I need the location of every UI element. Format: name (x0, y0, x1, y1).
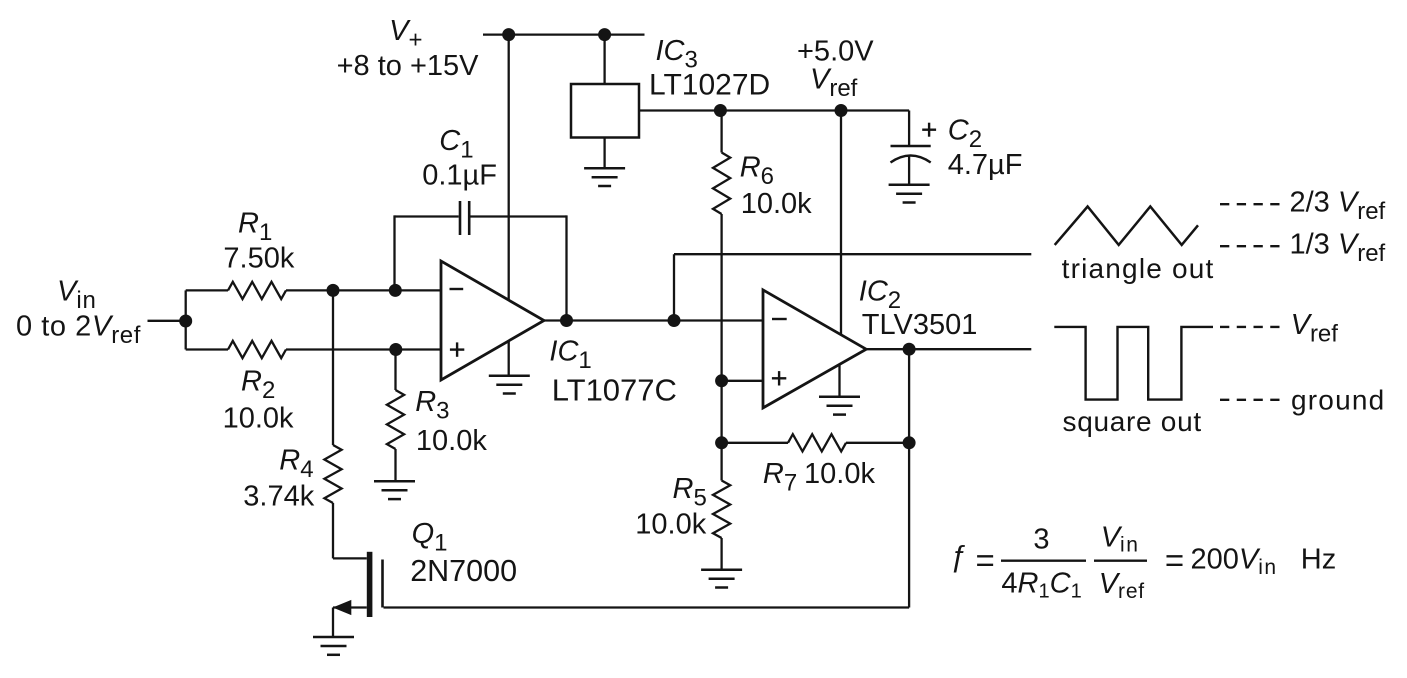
IC2 plus sign (772, 371, 786, 385)
svg-text:R2: R2 (241, 366, 275, 405)
capacitor C2 top plate (891, 145, 931, 148)
label Q1 (412, 518, 448, 557)
label R5 (673, 473, 707, 512)
wire C1 right (471, 215, 567, 320)
svg-text:Vin: Vin (57, 276, 97, 315)
dashed level Vref (1220, 326, 1280, 328)
wire Vref to C2 (908, 111, 910, 146)
capacitor C1 (460, 201, 469, 235)
label LT1077C (552, 373, 677, 408)
svg-text:Vin: Vin (1101, 521, 1140, 556)
svg-text:R6: R6 (740, 151, 774, 190)
formula Hz (1301, 544, 1336, 576)
svg-text:1/3 Vref: 1/3 Vref (1290, 228, 1386, 266)
label C2 (948, 114, 982, 153)
dashed level ground (1220, 399, 1280, 401)
label R3 value (416, 425, 487, 457)
op-amp IC1 triangle (441, 261, 544, 380)
wire IC2 output to Q1 gate (384, 349, 910, 607)
node on rail (IC3 drop) (598, 28, 611, 41)
label R6 value (741, 188, 812, 220)
svg-text:Hz: Hz (1301, 544, 1336, 576)
svg-text:Vref: Vref (1291, 309, 1339, 348)
node R7 right (903, 436, 916, 449)
svg-text:=: = (1165, 542, 1184, 579)
resistor R6 (713, 111, 730, 381)
wire IC3 output (Vref rail) (639, 109, 909, 111)
label ground level (1291, 385, 1385, 416)
label 1/3 Vref (1290, 228, 1386, 266)
label R4 (279, 444, 313, 483)
svg-text:Q1: Q1 (412, 518, 448, 557)
label 4.7uF (948, 149, 1023, 181)
label triangle out (1062, 253, 1215, 284)
wire V+ to IC1 top (508, 35, 510, 300)
node R1-R4 junction (327, 284, 340, 297)
svg-text:10.0k: 10.0k (416, 425, 487, 457)
ground R5 (701, 570, 742, 588)
svg-text:4R1C1: 4R1C1 (1001, 567, 1081, 602)
ground Q1 (313, 637, 354, 655)
label TLV3501 (862, 309, 978, 341)
svg-text:LT1077C: LT1077C (552, 373, 677, 408)
svg-text:10.0k: 10.0k (804, 458, 875, 490)
svg-text:TLV3501: TLV3501 (862, 309, 978, 341)
wire IC1 to ground (508, 341, 510, 376)
svg-text:0.1µF: 0.1µF (422, 160, 497, 192)
ground IC2 (819, 397, 860, 415)
svg-text:R1: R1 (238, 207, 272, 246)
svg-text:2N7000: 2N7000 (410, 554, 517, 588)
wire IC2 output (866, 348, 1031, 350)
svg-text:3.74k: 3.74k (243, 480, 314, 512)
svg-text:+8 to +15V: +8 to +15V (337, 50, 480, 82)
ground IC1 (489, 376, 530, 394)
node on rail (V+ drop) (502, 28, 515, 41)
formula denominator 4R1C1 (1001, 567, 1081, 602)
label +8 to +15V (337, 50, 480, 82)
svg-text:10.0k: 10.0k (741, 188, 812, 220)
resistor R1 (186, 282, 441, 299)
label LT1027D (649, 69, 770, 102)
svg-text:C2: C2 (948, 114, 982, 153)
capacitor C2 plus sign (922, 123, 936, 137)
wire C1 left (395, 215, 459, 290)
ground IC3 (584, 168, 625, 186)
formula fraction bar 2 (1094, 560, 1147, 562)
formula numerator 3 (1033, 523, 1049, 555)
label square out (1063, 406, 1202, 437)
node input (179, 315, 192, 328)
svg-text:Vref: Vref (810, 64, 858, 103)
svg-text:=: = (976, 542, 995, 579)
svg-text:200Vin: 200Vin (1191, 544, 1278, 580)
label R6 (740, 151, 774, 190)
svg-text:IC1: IC1 (549, 336, 591, 375)
triangle waveform (1055, 207, 1198, 245)
label 2/3 Vref (1290, 187, 1386, 226)
wire Q1 source with body arrow (333, 600, 367, 637)
svg-text:0 to 2Vref: 0 to 2Vref (16, 311, 141, 350)
svg-text:LT1027D: LT1027D (649, 69, 770, 102)
wire C2 to ground (908, 156, 910, 185)
svg-text:+5.0V: +5.0V (797, 36, 874, 68)
IC1 plus sign (450, 342, 464, 356)
label R1 value (223, 243, 294, 275)
IC2 minus sign (772, 318, 787, 320)
label +5.0V (797, 36, 874, 68)
op-amp IC2 triangle (763, 290, 866, 408)
formula numerator Vin (1101, 521, 1140, 556)
wire Q1 drain (333, 557, 367, 559)
node triangle-out junction (668, 314, 681, 327)
wire IC1 output (544, 319, 763, 321)
svg-text:triangle out: triangle out (1062, 253, 1215, 284)
label R4 value (243, 480, 314, 512)
wire IC2 to ground (838, 365, 840, 397)
resistor R5 (713, 381, 730, 570)
label R3 (415, 386, 449, 425)
label R7 value (804, 458, 875, 490)
label V+ (389, 15, 422, 54)
svg-text:Vref: Vref (1099, 568, 1145, 603)
label R1 (238, 207, 272, 246)
wire IC2 plus input (722, 380, 763, 382)
svg-text:3: 3 (1033, 523, 1049, 555)
svg-text:2/3 Vref: 2/3 Vref (1290, 187, 1386, 226)
label IC1 (549, 336, 591, 375)
node IC1 output (C1 right) (560, 314, 573, 327)
formula denominator Vref (1099, 568, 1145, 603)
label R2 (241, 366, 275, 405)
power rail V+ (483, 33, 645, 35)
node R6 top (714, 104, 727, 117)
svg-text:7.50k: 7.50k (223, 243, 294, 275)
label C1 (439, 125, 473, 164)
svg-text:R4: R4 (279, 444, 313, 483)
wire triangle out (674, 254, 1031, 320)
IC3 box LT1027D (571, 84, 639, 138)
svg-text:R7: R7 (763, 458, 797, 497)
square waveform (1054, 327, 1213, 400)
svg-text:V+: V+ (389, 15, 422, 54)
dashed level 2/3 Vref (1220, 203, 1280, 205)
transistor Q1 channel bar (367, 552, 373, 617)
IC1 minus sign (450, 288, 464, 290)
formula result (1165, 542, 1278, 580)
node inverting input junction (389, 284, 402, 297)
formula fraction bar 1 (1001, 560, 1086, 562)
node IC2 plus input (715, 374, 728, 387)
label Vref (810, 64, 858, 103)
node R7 left (715, 436, 728, 449)
svg-text:square out: square out (1063, 406, 1202, 437)
wire rail to IC3 (603, 35, 605, 84)
resistor R3 (387, 350, 404, 482)
ground C2 (889, 185, 930, 203)
wire Vref to IC2 top (840, 111, 842, 335)
label IC3 (656, 35, 698, 74)
transistor Q1 gate bar (381, 560, 384, 608)
svg-text:10.0k: 10.0k (635, 509, 706, 541)
svg-text:C1: C1 (439, 125, 473, 164)
wire input branch vertical (185, 290, 187, 349)
wire input stub (148, 320, 186, 322)
resistor R7 (722, 434, 910, 451)
label 2N7000 (410, 554, 517, 588)
label R2 value (223, 403, 294, 435)
label 0 to 2Vref (16, 311, 141, 350)
label R5 value (635, 509, 706, 541)
capacitor C2 curved plate (891, 156, 931, 163)
label C1 value (422, 160, 497, 192)
resistor R2 (186, 341, 441, 358)
node IC2 output (903, 343, 916, 356)
label IC2 (859, 276, 901, 315)
label Vref level (1291, 309, 1339, 348)
node noninverting input junction (389, 343, 402, 356)
formula f = (950, 540, 995, 579)
wire IC3 to ground (603, 138, 605, 169)
svg-text:4.7µF: 4.7µF (948, 149, 1023, 181)
resistor R4 (324, 290, 341, 558)
svg-text:ƒ: ƒ (950, 540, 967, 573)
svg-text:R3: R3 (415, 386, 449, 425)
svg-text:10.0k: 10.0k (223, 403, 294, 435)
dashed level 1/3 Vref (1220, 245, 1280, 247)
label R7 (763, 458, 797, 497)
svg-text:ground: ground (1291, 385, 1385, 416)
svg-text:R5: R5 (673, 473, 707, 512)
ground R3 (374, 481, 415, 499)
label Vin (57, 276, 97, 315)
node Vref drop (835, 104, 848, 117)
